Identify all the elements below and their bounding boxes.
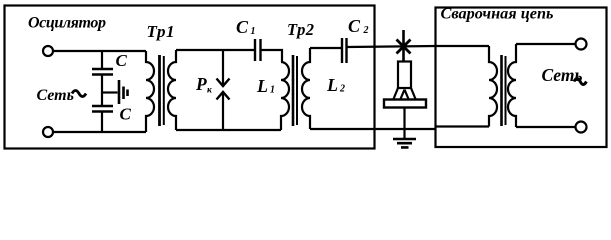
wire welding secondary top xyxy=(516,43,576,45)
wire welding secondary bottom xyxy=(516,126,576,128)
welding box xyxy=(436,8,607,148)
label L1 xyxy=(256,76,275,96)
arc junction asterisk xyxy=(397,30,411,61)
discharger xyxy=(119,80,128,104)
svg-text:C: C xyxy=(236,17,249,37)
wire loop1 top xyxy=(176,49,254,51)
svg-text:L: L xyxy=(326,75,338,95)
terminal X1 mains top xyxy=(43,46,53,56)
capacitor C lower xyxy=(92,106,113,112)
wire discharger branch xyxy=(102,91,118,93)
label L2 xyxy=(326,75,345,95)
transformer Tp1 primary winding xyxy=(146,51,154,132)
svg-text:Тр1: Тр1 xyxy=(147,22,175,41)
welding transformer primary winding xyxy=(489,46,497,127)
electrode xyxy=(398,62,411,89)
transformer Tp2 primary winding L1 xyxy=(281,62,289,130)
label C2 xyxy=(348,16,369,36)
svg-text:Сеть: Сеть xyxy=(37,87,74,104)
welding transformer core xyxy=(502,55,506,126)
label Сварочная цепь xyxy=(441,4,554,23)
wire loop2 top xyxy=(310,47,342,49)
svg-text:1: 1 xyxy=(270,85,275,96)
wire welding primary bottom xyxy=(435,125,489,127)
terminal X2 mains bottom xyxy=(43,127,53,137)
wire C1 to Tp2 xyxy=(261,50,283,62)
svg-text:Осцилятор: Осцилятор xyxy=(28,15,106,32)
ac tilde (welding) xyxy=(574,79,586,85)
transformer Tp1 secondary winding xyxy=(168,50,176,130)
wire between capacitors xyxy=(101,76,103,106)
svg-text:C: C xyxy=(116,51,128,70)
wire capacitor branch upper xyxy=(101,51,103,68)
svg-text:Сварочная цепь: Сварочная цепь xyxy=(441,4,554,23)
transformer Tp1 core xyxy=(160,55,164,126)
label C1 xyxy=(236,17,256,37)
svg-text:Р: Р xyxy=(195,74,207,94)
svg-text:2: 2 xyxy=(339,84,345,95)
svg-text:C: C xyxy=(120,105,132,124)
wire mains bottom xyxy=(53,131,146,133)
label Pk xyxy=(195,74,213,96)
svg-text:к: к xyxy=(207,86,213,96)
label Tp1 xyxy=(147,22,175,41)
svg-text:Тр2: Тр2 xyxy=(287,20,314,39)
svg-text:L: L xyxy=(256,76,268,96)
workpiece plate xyxy=(384,100,426,108)
spark gap Pk lower arrow xyxy=(217,92,230,130)
electrode arc flare xyxy=(394,88,416,99)
label Осцилятор xyxy=(28,15,106,32)
capacitor C upper xyxy=(92,69,113,75)
wire C2 to welding box xyxy=(347,46,436,47)
svg-text:C: C xyxy=(348,16,361,36)
label C lower xyxy=(120,105,132,124)
wire loop1 bottom xyxy=(176,129,281,131)
label Сеть (welding) xyxy=(542,65,583,85)
wire capacitor branch lower xyxy=(101,113,103,133)
transformer Tp2 core xyxy=(293,55,297,126)
welding transformer secondary winding xyxy=(508,44,516,127)
transformer Tp2 secondary winding L2 xyxy=(302,48,310,129)
wire welding primary top xyxy=(435,45,489,47)
svg-text:1: 1 xyxy=(251,26,256,37)
oscillator box xyxy=(5,6,375,149)
label Tp2 xyxy=(287,20,314,39)
terminal welding top xyxy=(576,39,587,50)
ground xyxy=(393,139,416,147)
terminal welding bottom xyxy=(576,122,587,133)
capacitor C2 xyxy=(342,38,347,63)
svg-text:Сеть: Сеть xyxy=(542,65,583,85)
wire plate to ground xyxy=(403,108,405,139)
spark gap Pk upper arrow xyxy=(217,50,230,86)
label C upper xyxy=(116,51,128,70)
wire mains top xyxy=(53,50,146,52)
label Сеть (mains left) xyxy=(37,87,74,104)
capacitor C1 xyxy=(255,39,261,61)
svg-text:2: 2 xyxy=(363,25,369,36)
ac tilde (mains left) xyxy=(72,91,86,97)
wire loop2 bottom xyxy=(310,128,435,130)
